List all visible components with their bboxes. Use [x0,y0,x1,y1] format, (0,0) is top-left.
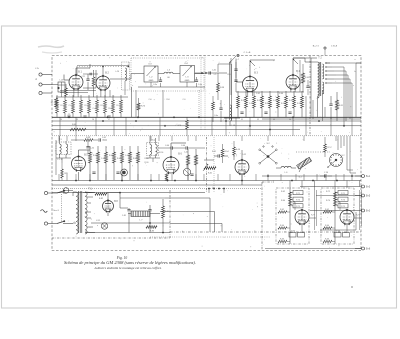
resistor R55 AF row [129,146,132,180]
bus junction dot 13 [269,129,271,131]
PSU dashed right border [169,190,171,238]
filter choke L7 (hatched box) [128,211,160,222]
pilot lamp L81 [96,220,108,229]
AC terminal top [44,191,47,194]
label C-9 [183,99,186,101]
caption figure number Fig. 10 [116,256,128,260]
top rail RF row [56,96,128,98]
line to B+5a [300,186,355,188]
T2 tap arrow 1 [325,66,344,67]
dash-dot divider x206 [206,137,208,193]
output stage 2 spine resistor [334,192,337,206]
svg-text:C21: C21 [82,76,85,78]
transformer T1 label [88,188,92,191]
mid drop x138 [137,174,139,181]
fuse [63,188,73,194]
output stage 1 bottom resistor boxes [289,230,305,237]
svg-text:54: 54 [289,119,291,121]
B3 cathode to rail [248,93,253,96]
output stage 2 resistor box R75 [335,204,348,208]
svg-text:T 1: T 1 [88,188,92,191]
label C-32 [249,103,253,105]
junction blob [58,87,60,89]
label B+8 top right [313,45,338,56]
osc coupling cap C-31 [209,70,216,75]
T2 feed wire from B4 [293,58,318,62]
resistor R1 [51,98,58,107]
resistor R81 [162,199,171,233]
resistor R17 cathode row [112,95,115,117]
bus line y126 [52,125,361,127]
output stage 1 right verticals [314,190,316,230]
osc stacked cap a [234,62,237,78]
resistor R57 [324,137,332,157]
label C-46 [125,155,129,157]
transformer T2 core [319,62,322,96]
terminal B+3 at y210.5 [355,209,371,213]
svg-text:R-63: R-63 [72,124,76,126]
svg-text:R-62: R-62 [281,191,285,193]
svg-text:R 73: R 73 [296,199,300,201]
switch nested wires [338,136,356,173]
feed line HT C [170,224,222,233]
bus drop wire x76 [75,117,77,136]
mid drop x59 [58,174,60,181]
output stage 1 grid feed wire [290,202,295,210]
osc dotted divider b [204,56,206,131]
output stage 1 cathode wire [301,224,303,232]
cap C-42 [99,137,107,142]
svg-text:12-56: 12-56 [159,152,164,154]
terminal B+5 at y195.5 [355,194,371,198]
bus junction dot 4 [102,120,104,122]
tube B3 [243,72,259,93]
tuning wires [138,73,204,75]
IF bypass cap b [264,112,267,113]
output stage 2 grid feed wire [335,202,340,210]
bus junction dot 8 [225,120,227,122]
osc section vertical wire [230,58,232,95]
mid small resistor R56 [233,141,240,160]
svg-text:R 71: R 71 [341,193,345,195]
bottom distribution dash-dot bus [170,231,361,233]
HT rail from rectifier [120,193,128,208]
bus drop wire x126 [125,117,127,136]
svg-text:52: 52 [257,119,259,121]
antenna terminal A1 [39,73,52,76]
small tube B7 [233,155,249,176]
T3 primary coil [60,136,62,158]
T2 tap arrow 3 [325,74,348,75]
mid drop x336 [335,174,337,181]
osc coupling wire [195,72,227,73]
svg-text:R-38: R-38 [297,103,301,105]
svg-text:R-74: R-74 [326,200,330,202]
coil can L26 box [58,80,65,93]
label R-31 [241,100,245,102]
junction dot b16 [162,232,164,234]
capacitor C-40 C-44 row [159,145,206,150]
mid drop x352 [351,174,353,181]
junction dot b11 [312,180,314,182]
osc resistor mid [212,96,215,122]
coil L-26 [115,62,129,95]
tuning box drop wires [136,90,199,117]
svg-text:16: 16 [92,119,94,121]
label R-3 [85,105,88,107]
switch top [48,190,66,222]
label R-51 [212,151,216,153]
resistor R51 AF row [97,146,100,180]
AC tilde symbol [41,210,48,213]
label R-47 [133,158,137,160]
resistor R37 IF row [293,91,296,117]
detector resistor Rd1 [187,149,190,180]
T2 tap arrow 5 [325,82,352,83]
bus line y117 (HT rail, thick) [52,116,361,118]
label R-44 [109,155,113,157]
junction dot b9 [267,175,269,177]
bus drop wire x114 [113,117,115,136]
label C-52 [242,154,246,156]
label R-34 [265,103,269,105]
junction dot b5 [208,188,210,190]
junction dot b2 [121,180,123,182]
label R-9 [228,74,231,76]
line to B+3 [310,210,355,212]
double wire top-left a [60,91,96,93]
ground terminal left [39,91,52,94]
tuned circuit L2/C2 box [144,63,158,82]
transformer T2 right winding upper [322,64,324,79]
T3 bottom wires [56,158,71,163]
svg-text:1°C 39: 1°C 39 [57,159,62,161]
AF cap b [116,172,119,173]
svg-text:51: 51 [241,119,243,121]
svg-text:14-7: 14-7 [235,59,239,61]
grid resistor R23 [65,84,68,97]
mid drop x296 [295,174,297,181]
junction dot b3 [150,180,152,182]
resistor R38 IF row [301,91,304,117]
IF bypass cap c [288,112,291,113]
bus junction dot 2 [137,117,139,119]
grid cap wire B1 [64,75,69,81]
tube B4 [286,70,300,90]
capacitor C-34 [86,141,94,154]
svg-text:Sec 6: Sec 6 [53,210,59,212]
stub y136 x151 [150,136,152,141]
AF coupling caps [214,154,228,157]
osc feedback pair [230,56,239,120]
resistor R12 cathode row [72,95,75,117]
output feed verticals [290,181,359,191]
output stage 2 plate wire right [354,215,361,219]
filter cap C81 [122,208,131,233]
caption line 2 [93,266,161,270]
svg-text:R-7: R-7 [117,105,120,107]
svg-text:C-44: C-44 [181,145,185,147]
label C-43 [101,158,105,160]
coupling coil L4 [164,70,173,80]
rotary switch S2 [259,143,277,164]
svg-text:R-7b: R-7b [141,106,145,108]
label C-35 [273,100,277,102]
tube B3 plate wire [250,60,275,77]
heater scalloped line [77,65,129,75]
stub y136 x336 [335,136,337,141]
svg-text:R 75: R 75 [296,206,300,208]
output stage 1 resistor R-64 [278,225,290,229]
terminal feed line B+5b [316,195,361,197]
output section dash-dot enclosure [262,182,274,251]
bus drop wire x226 [225,117,227,136]
label R-1 [61,105,64,107]
osc wire right [218,64,231,72]
bus line junction right [262,118,361,120]
svg-text:C-46: C-46 [125,155,129,157]
label R-42 [93,155,97,157]
tube B7 wires [241,150,243,185]
junction dot b10 [291,180,293,182]
bus junction dot 6 [164,125,166,127]
IF transformer arrows [250,59,298,66]
svg-text:b: b [355,71,356,73]
bus line y180 [52,180,361,182]
terminal B+1 at y176 [355,175,371,179]
label R-38 [297,103,301,105]
bus line y129 [52,129,300,131]
gang dotted verticals [150,62,186,64]
AF cap a [92,172,95,173]
B2 cathode to rail [101,89,105,97]
junction dots mid bus [167,180,243,182]
svg-text:B+6: B+6 [366,249,371,251]
svg-text:R 57: R 57 [328,147,332,149]
mid drop x106 [105,174,107,181]
T2 left vertical [310,58,312,117]
svg-text:R-38: R-38 [220,87,224,89]
resistor right of B4 [302,64,309,92]
filter cap C82 [148,205,151,233]
wire A to L26 [52,84,58,86]
resistor R50 AF row [89,146,92,180]
output stage 2 resistor R-64 [323,225,335,229]
resistor R-7b under tuning box [137,98,145,117]
wire B2 plate to tuning [110,74,138,79]
svg-text:L-26: L-26 [115,71,119,73]
label R-5 [101,105,104,107]
tuning bottom rail [138,82,205,87]
bus drop wire x160 [159,117,161,136]
schematic outer dash-dot border [52,56,361,251]
svg-text:B+1: B+1 [366,176,371,178]
T2 tap arrow 2 [325,70,346,71]
mid drop x242 [241,174,243,181]
T3 secondary coil [66,141,68,158]
svg-text:R-64: R-64 [280,225,284,227]
resistor R14 cathode row [88,95,91,117]
svg-text:R-64: R-64 [281,200,285,202]
T2 bottom wires [318,90,323,121]
bus drop wire x352 [351,117,353,136]
svg-text:L-5: L-5 [214,74,217,76]
tube B4 plate wire [293,58,317,75]
resistor R35 IF row [277,91,280,117]
svg-text:R-33: R-33 [257,100,261,102]
svg-text:R-31: R-31 [241,100,245,102]
mid drop x268 [267,174,269,181]
bus drop wire x270 [269,117,271,136]
svg-text:R-8: R-8 [167,99,170,101]
line to B+1 [262,175,361,177]
B1 cathode to rail [74,88,78,97]
output stage 1 resistor R-66 [278,238,290,242]
svg-text:C-9: C-9 [183,99,186,101]
output stage 2 resistor box R73 [335,197,348,201]
svg-text:R-49: R-49 [305,77,309,79]
label C-2 [69,105,72,107]
resistor R-63 on bus [70,124,86,131]
tube B2 grid cap wire [102,66,103,76]
detector resistor Rd2 [195,149,198,180]
output stage 2 dash-dot box [321,188,354,244]
labels around B6 [145,152,188,165]
T1 secondary taps [85,192,95,233]
bus junction dot 0 [68,117,70,119]
junction dot b13 [351,175,353,177]
T2 resistor right [336,92,345,121]
terminal B+5 at y186.5 [355,185,371,189]
speaker/jack circle [121,169,128,176]
mid drop x159 [158,174,160,181]
terminal feed line B+6 [265,248,361,250]
transformer T2 right winding lower [322,82,324,94]
junction dot b15 [149,222,151,224]
transformer T1 primary [76,192,78,234]
resistor R52 AF row [105,146,108,180]
svg-text:R-54: R-54 [224,151,228,153]
capacitor C56 [320,172,332,178]
label R-6 [109,108,112,110]
svg-text:R 6d: R 6d [336,230,340,232]
svg-text:R-42: R-42 [93,155,97,157]
junction dot b6 [213,188,215,190]
bottom dotted line [150,236,270,238]
label L-5 [214,74,217,76]
osc short bus [224,117,240,119]
mid drop x76 [75,174,77,181]
svg-text:R-5: R-5 [101,105,104,107]
output stage 2 bottom resistor boxes [334,230,350,237]
resistor R30 IF row [237,91,240,117]
label R-72 [326,191,330,193]
svg-text:15: 15 [76,119,78,121]
transformer T2 label [318,57,322,60]
PSU mid rail [91,222,170,224]
margin smudge top-left [38,46,64,53]
osc dotted divider a [200,56,202,131]
mid drop x188 [187,174,189,181]
terminal B+6 at y248.5 [355,247,371,251]
tube B1 anode wire [76,68,90,75]
output stage 1 tube B 9 [295,209,309,225]
output stage 1 resistor box R73 [290,197,303,201]
IF transformer T4 dashed box [147,140,159,156]
bus drop wire x250 [249,117,251,136]
svg-text:C-3a: C-3a [153,84,157,86]
output stage 1 resistor box R71 [290,191,303,195]
junction dot b0 [75,180,77,182]
stub y136 x242 [241,136,243,141]
stub y136 x196 [195,136,197,141]
bypass capacitor C6 [83,116,86,117]
stub y136 x159 [158,136,160,141]
osc trimmer cap [214,100,223,122]
osc winding [230,105,235,127]
svg-text:C B+8: C B+8 [331,46,338,48]
bus drop wire x212 [211,117,213,136]
output stage 2 central spine [334,188,336,244]
svg-text:R-37: R-37 [289,100,293,102]
mid drop x281 [280,174,282,181]
grid wire B3 [236,60,243,82]
stub y136 x188 [187,136,189,141]
tuning trimmer C4a [195,77,202,87]
svg-text:R-1: R-1 [61,105,64,107]
bus junction dot 11 [318,120,320,122]
cap right of B4 [306,80,309,95]
T2 top tap line [325,62,361,63]
pot gang dashes [296,151,330,153]
T2 tap lines down [344,63,361,126]
svg-text:R-62: R-62 [280,209,284,211]
svg-text:C-34: C-34 [90,148,94,150]
svg-text:B-56: B-56 [236,149,240,151]
resistor R-41 [71,137,98,142]
junction dot b4 [195,180,197,182]
bus junction dot 5 [135,120,137,122]
svg-text:R 73: R 73 [341,199,345,201]
resistor R53 AF row [113,146,116,180]
bus junction dot 12 [343,125,345,127]
svg-text:C ⊙+B: C ⊙+B [244,51,251,54]
tuned circuit L3/C4 box [180,63,195,82]
coil L-26 shield box [122,62,130,90]
svg-text:R 75: R 75 [341,206,345,208]
svg-text:R-66: R-66 [325,238,329,240]
label a [355,59,356,61]
feed drop from bus [209,189,224,194]
bus drop wire x331 [330,117,332,136]
tuning trimmer C3a [153,77,162,87]
bleeder resistor R83 [146,226,157,233]
resistor R36 IF row [285,91,288,117]
svg-text:C-9/19: C-9/19 [176,125,181,127]
svg-text:17: 17 [108,119,110,121]
tone coil L6 [276,166,296,174]
mid drop x326 [325,174,327,181]
wire right of B4 [299,60,301,92]
bus junction dot 1 [107,117,109,119]
bypass capacitor C5 [67,114,71,117]
output stage 2 resistor box R71 [335,191,348,195]
label row RF resistors [60,119,110,121]
tube B6 plate wire [165,143,186,181]
T4 bottom wires [146,158,160,162]
transformer T1 secondary [85,192,87,234]
IF transformer T3 dashed box [56,139,71,154]
